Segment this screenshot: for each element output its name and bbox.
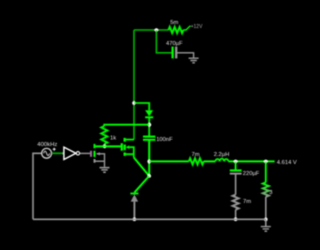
wire node A to R2 top <box>104 125 149 126</box>
wire node B out to R4 <box>149 160 189 162</box>
node switch-out junction dot <box>147 160 151 164</box>
resistor R5 7m <box>233 195 239 210</box>
node gate junction dot <box>103 145 107 149</box>
resistor R1 5m <box>169 27 184 33</box>
svg-text:100nF: 100nF <box>156 137 173 143</box>
inductor L1 2.2uH <box>215 159 228 162</box>
wire gate drive Q2 drain to Q1 gate <box>95 145 122 147</box>
wire node B diagonal to D2 <box>134 176 149 193</box>
wire R4 to L1 <box>204 160 216 162</box>
svg-text:+12V: +12V <box>191 24 203 30</box>
ground right <box>261 227 271 232</box>
ground for C1 <box>189 58 199 63</box>
node rail-D2 junction dot <box>133 218 137 222</box>
svg-text:220µF: 220µF <box>243 171 260 177</box>
voltage source V1 400kHz <box>42 148 52 158</box>
node rail-R5 junction dot <box>234 218 238 222</box>
wire C3 to R5 <box>235 174 237 195</box>
wire C1 to ground <box>176 53 193 58</box>
wire output to R6 <box>265 161 267 182</box>
wire Q1 source diagonal to node B <box>134 158 149 177</box>
wire bottom rail <box>33 218 266 220</box>
capacitor C2 100nF <box>143 136 155 138</box>
node A junction dot <box>148 123 152 127</box>
svg-text:4.614 V: 4.614 V <box>277 160 297 166</box>
svg-text:400kHz: 400kHz <box>37 142 57 148</box>
transistor Q2 gate driver MOSFET <box>90 151 92 157</box>
svg-text:3: 3 <box>269 190 272 196</box>
node drain junction dot <box>132 101 136 105</box>
capacitor C1 470uF <box>172 47 174 59</box>
wire D1 cathode to node A <box>148 117 150 136</box>
svg-text:1k: 1k <box>110 136 116 142</box>
capacitor C3 220uF <box>235 161 237 170</box>
node C3 junction dot <box>234 160 238 164</box>
wire to diode D1 anode <box>134 103 149 110</box>
wire input vertical left drop to Q1 drain <box>133 30 135 140</box>
wire R6 to rail <box>265 197 267 220</box>
inverter U1 <box>64 147 76 159</box>
transistor Q1 power MOSFET <box>121 143 123 151</box>
node B junction dot <box>147 174 151 178</box>
wire R6 to ground <box>265 219 267 226</box>
diode D2 freewheel <box>130 193 138 195</box>
svg-text:7m: 7m <box>191 152 199 158</box>
node load junction dot <box>264 160 268 164</box>
wire R5 to rail <box>235 210 237 220</box>
wire V1 to inverter <box>52 152 64 154</box>
ground for Q2 <box>100 168 110 173</box>
svg-text:7m: 7m <box>243 199 251 205</box>
wire input to C1 <box>156 30 172 53</box>
wire left return <box>33 153 42 219</box>
resistor R4 7m <box>189 158 204 164</box>
wire C2 bottom to node B <box>148 140 150 176</box>
node rail-R6 junction dot <box>264 218 268 222</box>
svg-text:470µF: 470µF <box>166 41 183 47</box>
wire L1 to output <box>228 160 274 162</box>
wire input top horizontal <box>134 29 169 31</box>
node input junction dot <box>155 28 159 32</box>
svg-text:2.2µH: 2.2µH <box>214 152 230 158</box>
diode D1 <box>145 110 153 116</box>
svg-text:5m: 5m <box>170 20 178 26</box>
resistor R2 1k <box>101 126 107 144</box>
wire inverter out to Q2 gate <box>80 152 90 154</box>
